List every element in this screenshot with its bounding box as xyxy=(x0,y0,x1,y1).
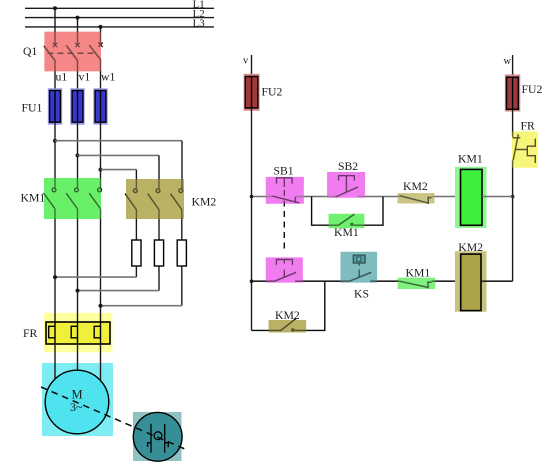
rung2 wire SB1b to KS xyxy=(295,280,349,282)
KS wheel contact left xyxy=(148,424,151,453)
speed switch KS highlight xyxy=(133,412,182,461)
rung1 wire SB2 to KM2 NC xyxy=(358,196,399,198)
KM2 aux highlight xyxy=(269,320,307,333)
SB1b plunger xyxy=(276,260,292,278)
wire phase2 to KM2 pole2 xyxy=(78,154,160,156)
contactor KM1 main highlight overlay xyxy=(44,178,101,219)
button SB2 highlight overlay xyxy=(327,172,365,198)
fuse FU1 pole 1 xyxy=(48,88,62,124)
rung1 wire coil KM1 to w xyxy=(482,196,513,198)
wire FR to motor terminal 2 xyxy=(77,344,79,371)
KS NO blade xyxy=(350,272,372,281)
button SB1 highlight xyxy=(266,177,304,204)
contactor KM2 main highlight xyxy=(126,179,184,219)
FR NC contact xyxy=(513,134,521,160)
node phase3 branch xyxy=(99,168,103,172)
KM1 main contact 1 xyxy=(44,188,56,209)
contactor KM1 main highlight xyxy=(44,178,101,219)
node on L1 xyxy=(53,6,57,10)
wire KM2 c3 to resistor R3 xyxy=(181,210,183,240)
wire Q1 pole2 to FU1 xyxy=(77,61,79,93)
speed switch KS wheel xyxy=(133,412,182,461)
branch KM1 aux loop wire right xyxy=(354,197,383,226)
KM1 aux NO contact xyxy=(338,214,354,226)
svg-text:FU1: FU1 xyxy=(22,102,43,115)
svg-text:FU2: FU2 xyxy=(522,83,543,96)
svg-text:KM1: KM1 xyxy=(458,153,483,166)
KM2 aux branch wire right xyxy=(295,281,325,330)
button SB1 highlight overlay xyxy=(266,177,304,204)
contactor KM2 NC rung1 highlight overlay xyxy=(398,193,435,203)
wire FR to motor terminal 1 xyxy=(54,344,56,380)
resistor R1 xyxy=(132,240,141,266)
motor highlight xyxy=(42,363,113,436)
node phase2 branch xyxy=(76,153,80,157)
breaker Q1 pole 2 contact x xyxy=(75,43,79,47)
contactor KM2 main highlight overlay xyxy=(126,179,184,219)
button SB2 highlight xyxy=(327,172,365,198)
breaker Q1 pole 3 contact x xyxy=(98,43,102,47)
KM2 aux highlight overlay xyxy=(269,320,307,333)
KM1 main contact 2 xyxy=(66,188,78,209)
resistor R3 xyxy=(177,240,186,266)
supply line L1 xyxy=(25,0,214,11)
svg-text:SB1: SB1 xyxy=(274,165,294,178)
speed switch KS highlight xyxy=(341,252,378,283)
wire phase1 to KM2 pole3 xyxy=(55,140,182,142)
contactor KM2 NC highlight rung1 xyxy=(398,193,435,203)
wire L2 to Q1 pole 2 xyxy=(77,18,79,45)
resistor R2 xyxy=(154,240,163,266)
wire R2 to phase2 xyxy=(158,266,160,291)
KS device icon xyxy=(353,255,365,263)
control wire v to rung1 xyxy=(251,108,253,197)
wire phase3 FU1 to KM1 xyxy=(100,122,102,188)
button SB1 second contact highlight xyxy=(266,257,303,282)
node R1 phase1 xyxy=(53,275,57,279)
svg-text:FR: FR xyxy=(521,120,536,133)
SB1 NC blade xyxy=(273,196,300,203)
FR thermal element xyxy=(516,139,536,164)
node rung2 at v xyxy=(250,279,254,283)
SB1b NO blade xyxy=(274,272,296,281)
speed switch KS contact highlight overlay xyxy=(341,252,378,283)
wire phase3 to KM2 pole1 xyxy=(101,169,137,171)
breaker Q1 highlight xyxy=(44,32,101,72)
contactor KM1 NC highlight rung2 xyxy=(398,278,436,289)
FR heater 2 xyxy=(71,322,77,344)
supply line L2 xyxy=(25,8,214,20)
svg-text:KM2: KM2 xyxy=(403,180,428,193)
wire FR to motor terminal 3 xyxy=(100,344,102,381)
svg-text:KM2: KM2 xyxy=(192,196,217,209)
wire L1 to Q1 pole 1 xyxy=(54,8,56,44)
KM1 aux highlight xyxy=(329,214,365,228)
wire L3 to Q1 pole 3 xyxy=(100,27,102,44)
control wire v rung2 to aux branch xyxy=(251,281,253,330)
svg-text:FR: FR xyxy=(23,327,38,340)
fuse FU1 pole 2 xyxy=(70,88,84,124)
control wire w upper xyxy=(512,55,514,77)
rung2 wire KS to KM1 NC xyxy=(370,280,399,282)
fuse FU1 pole 3 xyxy=(93,88,107,124)
KM2 aux NO contact xyxy=(280,319,296,332)
svg-text:L3: L3 xyxy=(193,17,205,29)
wire R3 to phase3 xyxy=(181,266,183,306)
rung2 wire KM1 NC to coil KM2 xyxy=(432,280,461,282)
KM1 aux highlight overlay xyxy=(329,214,365,228)
node on L2 xyxy=(76,16,80,20)
breaker Q1 pole 2 blade xyxy=(66,46,77,61)
svg-text:w: w xyxy=(504,56,512,67)
wire KM1 c2 down to FR xyxy=(77,209,79,322)
wire KM1 c1 down to FR xyxy=(54,209,56,322)
KM1 NC blade rung2 xyxy=(399,281,431,288)
wire w FU2 to FR contact xyxy=(512,109,514,137)
svg-text:v1: v1 xyxy=(79,71,91,84)
SB2 plunger xyxy=(339,176,355,193)
wire w FR contact to rung2 xyxy=(512,160,514,281)
supply line L3 xyxy=(25,17,214,29)
rung2 wire coil KM2 to w xyxy=(481,280,513,282)
rung1 wire KM2 NC to coil KM1 xyxy=(432,196,461,198)
coil KM1 xyxy=(455,167,487,228)
breaker Q1 linkage dashed xyxy=(48,52,94,54)
FR heater 1 xyxy=(49,322,55,344)
SB1 linked dashed stem xyxy=(283,190,285,252)
contactor KM1 NC rung2 highlight overlay xyxy=(398,278,436,289)
KS stem xyxy=(358,263,360,277)
thermal relay FR box xyxy=(46,322,110,344)
svg-text:v: v xyxy=(243,56,249,67)
node w rung1 xyxy=(511,195,515,199)
FR contact highlight xyxy=(512,131,538,167)
coil KM2 xyxy=(455,251,487,311)
motor M circle xyxy=(45,370,109,434)
KM2 main contact 1 xyxy=(125,189,137,210)
svg-text:SB2: SB2 xyxy=(338,160,358,173)
FR heater 3 xyxy=(94,322,100,344)
FR contact highlight overlay xyxy=(512,131,538,167)
KM2 main contact 2 xyxy=(148,189,160,210)
node rung1 at v xyxy=(250,195,254,199)
wire Q1 pole3 to FU1 xyxy=(100,60,102,92)
KM2 main contact 3 xyxy=(171,189,183,210)
svg-text:Q1: Q1 xyxy=(23,45,37,58)
svg-text:KM2: KM2 xyxy=(458,241,483,254)
node R2 phase2 xyxy=(76,289,80,293)
wire R1 to phase1 xyxy=(135,266,137,277)
breaker Q1 pole 1 blade xyxy=(44,46,55,61)
svg-text:FU2: FU2 xyxy=(262,86,283,99)
wire phase1 FU1 to KM1 xyxy=(54,122,56,188)
breaker Q1 pole 1 contact x xyxy=(53,43,57,47)
wire phase2 FU1 to KM1 xyxy=(77,122,79,188)
KS wheel contact right xyxy=(165,424,169,453)
breaker Q1 highlight overlay xyxy=(44,32,101,72)
KM2 aux branch wire left xyxy=(252,329,281,331)
svg-text:KM1: KM1 xyxy=(21,192,46,205)
node on L3 xyxy=(99,25,103,29)
shaft dashed link motor to KS xyxy=(41,387,186,450)
breaker Q1 pole 3 blade xyxy=(89,45,101,60)
control wire v upper xyxy=(251,55,253,77)
wire KM2 c2 to resistor R2 xyxy=(158,210,160,240)
node R3 phase3 xyxy=(99,304,103,308)
svg-text:KS: KS xyxy=(354,288,369,301)
wire Q1 pole1 to FU1 xyxy=(54,61,56,93)
svg-text:u1: u1 xyxy=(56,71,68,84)
fuse FU2 left xyxy=(244,74,260,111)
thermal relay FR highlight xyxy=(44,313,113,352)
KS wheel hub xyxy=(154,432,162,440)
button SB1 second contact highlight overlay xyxy=(266,257,303,282)
SB2 NO blade xyxy=(336,187,359,197)
rung1 wire v to SB1 xyxy=(252,196,274,198)
SB1 plunger xyxy=(277,178,293,187)
fuse FU2 right xyxy=(505,75,521,112)
rung1 wire SB1 to SB2 xyxy=(295,196,335,198)
svg-text:KM1: KM1 xyxy=(406,267,431,280)
KM2 NC blade rung1 xyxy=(399,196,431,204)
branch KM1 aux loop wire xyxy=(312,197,339,226)
rung2 wire v to SB1b xyxy=(252,280,275,282)
control wire v rung1 to rung2 xyxy=(251,197,253,282)
node phase1 branch xyxy=(53,139,57,143)
wire KM1 c3 down to FR xyxy=(100,209,102,322)
svg-text:w1: w1 xyxy=(101,71,115,84)
wire KM2 c1 to resistor R1 xyxy=(135,210,137,240)
KM1 main contact 3 xyxy=(89,188,101,209)
